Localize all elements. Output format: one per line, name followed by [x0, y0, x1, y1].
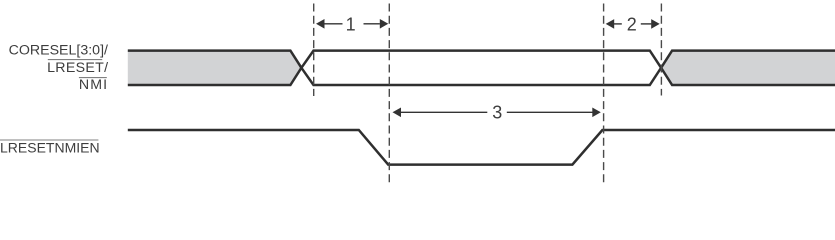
svg-text:2: 2 [627, 15, 637, 35]
svg-text:CORESEL[3:0]/: CORESEL[3:0]/ [9, 43, 108, 59]
svg-text:LRESETNMIEN: LRESETNMIEN [0, 140, 100, 156]
svg-text:LRESET/: LRESET/ [47, 60, 108, 76]
svg-text:3: 3 [492, 102, 502, 122]
svg-text:NMI: NMI [79, 77, 108, 93]
svg-text:1: 1 [346, 14, 356, 34]
